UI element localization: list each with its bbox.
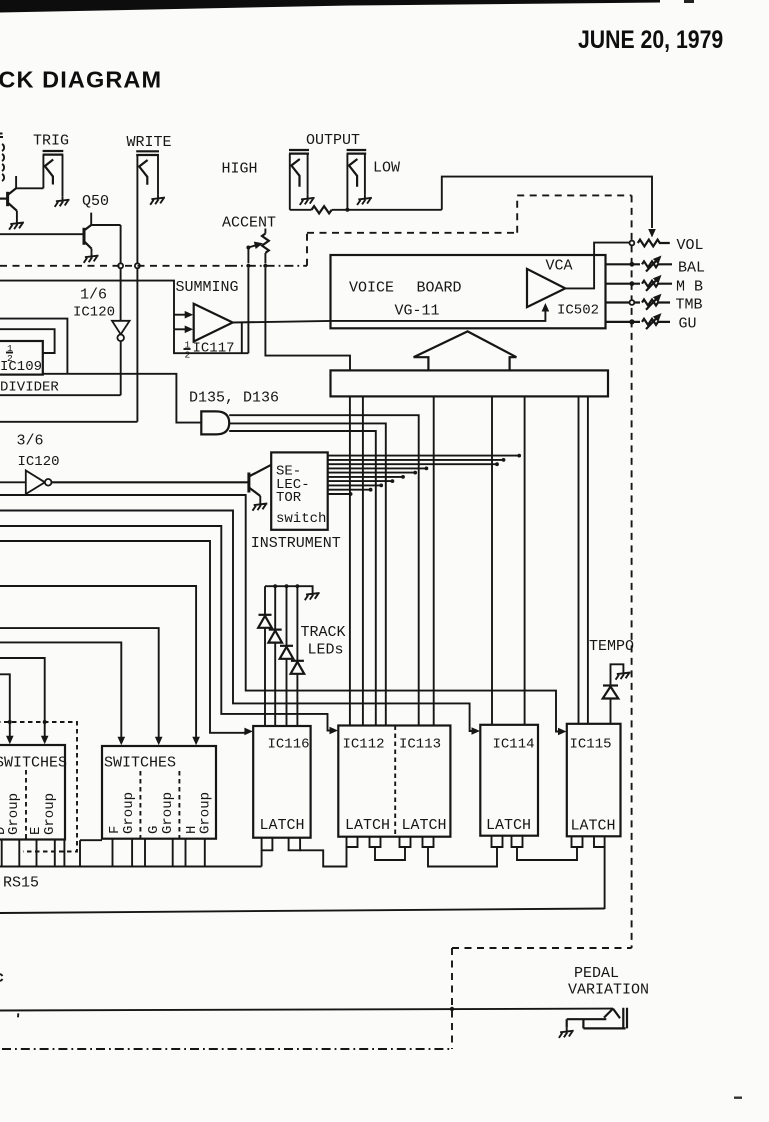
rail under switch boxes xyxy=(0,866,262,868)
label DIVIDER xyxy=(0,380,59,396)
LED tempo xyxy=(603,686,619,699)
wire under left box pin 1 xyxy=(1,840,3,867)
clipped letter fragment bottom left xyxy=(0,974,3,981)
node open circle on WRITE line xyxy=(135,263,140,268)
svg-text:BOARD: BOARD xyxy=(417,280,462,297)
svg-text:OUTPUT: OUTPUT xyxy=(306,132,360,149)
svg-text:Group: Group xyxy=(121,792,137,834)
wire IC109 to AND gate elbow xyxy=(43,374,201,423)
wire long bottom line xyxy=(0,1009,613,1011)
dashed route to voice board xyxy=(307,195,632,232)
AND gate D135/D136 xyxy=(201,411,229,434)
selector fan line 1 xyxy=(328,454,521,458)
tab under IC112 (b) xyxy=(370,837,381,847)
wire under middle box pin last xyxy=(204,839,206,867)
label LEDs xyxy=(308,642,344,659)
op-amp VCA IC502 xyxy=(527,269,565,307)
box IC115 latch xyxy=(567,724,621,837)
svg-text:switch: switch xyxy=(276,511,326,527)
wire group line G to switches F xyxy=(0,642,125,745)
label IC113 xyxy=(399,737,441,753)
jack TRIG xyxy=(43,151,64,197)
box IC116 latch xyxy=(253,726,310,838)
label IC120 (3/6) xyxy=(18,454,60,470)
svg-text:TMB: TMB xyxy=(676,297,703,314)
box SELECTOR switch xyxy=(271,452,328,529)
wire TMB row xyxy=(606,300,641,305)
label TOR xyxy=(276,490,302,506)
label TRACK xyxy=(301,624,346,641)
tab under IC115 (b) xyxy=(594,836,605,847)
label 3/6 xyxy=(17,433,44,450)
label VCA xyxy=(546,258,573,275)
IC109 box xyxy=(0,341,43,375)
label SWITCHES (middle) xyxy=(104,755,176,772)
potentiometer VOL xyxy=(638,240,670,247)
wire bus to IC114 b xyxy=(524,396,526,724)
label WRITE xyxy=(127,134,172,151)
wire IC112 to IC113 chain xyxy=(375,847,405,860)
label HIGH xyxy=(222,161,258,178)
svg-text:VCA: VCA xyxy=(546,258,573,275)
tab under IC114 (a) xyxy=(492,836,503,847)
dashed cell dividers (middle box) xyxy=(140,771,179,839)
label IC116 xyxy=(268,737,310,753)
wire Q50 collector to node xyxy=(91,225,120,263)
stray tick below long line xyxy=(17,1013,19,1017)
selector fan line 2 xyxy=(328,458,506,462)
long rail to left edge xyxy=(0,909,605,914)
wire IC116 to IC112 chain xyxy=(300,847,346,867)
label PEDAL xyxy=(574,965,619,982)
tab under left box (pins 2-3) xyxy=(19,840,36,867)
tab under IC116 (a) xyxy=(262,838,273,851)
label LATCH (IC115) xyxy=(571,818,616,835)
box IC112/IC113 latch xyxy=(338,726,450,837)
long dashed vertical xyxy=(631,195,633,948)
wire IC115 down to long rail xyxy=(604,847,606,909)
ground (Q50 emitter) xyxy=(84,253,99,263)
wire into inverter 3/6 xyxy=(0,481,26,483)
LED D2 xyxy=(268,630,282,643)
dashed riser to accent-route xyxy=(306,233,308,266)
svg-text:SUMMING: SUMMING xyxy=(176,279,239,296)
potentiometer ACCENT xyxy=(246,229,268,264)
label 1/6 xyxy=(80,287,107,304)
arrow summing input 1 xyxy=(174,311,193,319)
label M B xyxy=(676,279,703,296)
label IC109 xyxy=(0,359,42,375)
label E Group (rotated) xyxy=(28,793,58,835)
wire WRITE line continues down xyxy=(136,268,138,421)
ground (selector transistor) xyxy=(252,501,267,511)
node dots on dashed strobe xyxy=(8,720,47,724)
wire track led line 3 xyxy=(286,586,288,725)
wire IC113 to IC114 chain xyxy=(428,847,497,867)
inverter 3/6 IC120 xyxy=(26,471,52,495)
label Q50 xyxy=(82,193,109,210)
wire output bus with resistor xyxy=(290,206,442,213)
wire M B row xyxy=(606,281,641,286)
selector fan line 3 xyxy=(328,462,499,466)
wire BAL row xyxy=(606,262,641,267)
wire tempo led xyxy=(611,664,624,724)
tab under left box (pins 4-5) xyxy=(55,840,65,867)
wire AND output 2 xyxy=(229,423,386,725)
wire inverter to selector transistor base xyxy=(51,481,249,483)
tab under IC115 (a) xyxy=(572,836,583,847)
wire track led line 4 xyxy=(296,586,298,725)
tab under IC116 (b) xyxy=(289,838,301,851)
wire WRITE line turning left xyxy=(0,421,137,423)
wire inverter output down xyxy=(120,341,122,395)
selector fan line 9 xyxy=(328,488,373,492)
label VOICE BOARD xyxy=(349,280,462,297)
wire group line H to switches E xyxy=(0,658,49,744)
svg-text:GU: GU xyxy=(679,316,697,333)
svg-text:TRIG: TRIG xyxy=(33,133,69,150)
LED D4 xyxy=(291,661,305,674)
label GU xyxy=(679,316,697,333)
wire summing output into voice board xyxy=(233,309,546,323)
svg-text:INSTRUMENT: INSTRUMENT xyxy=(251,535,341,552)
svg-text:M B: M B xyxy=(676,279,703,296)
node junction with dashed xyxy=(450,1007,454,1011)
label IC115 xyxy=(570,737,612,753)
wire input line to summing xyxy=(0,281,174,330)
ground (tempo) xyxy=(616,670,631,680)
label LATCH (IC113) xyxy=(402,817,447,834)
label LATCH (IC116) xyxy=(260,817,305,834)
node VOL open circle xyxy=(630,241,635,246)
ground (track leds) xyxy=(305,590,320,600)
svg-text:ACCENT: ACCENT xyxy=(222,215,276,232)
tab under middle box (F) xyxy=(132,839,145,867)
svg-text:IC120: IC120 xyxy=(73,305,115,321)
svg-text:BLOCK DIAGRAM: BLOCK DIAGRAM xyxy=(0,67,162,93)
node LOW jack junction xyxy=(345,208,349,212)
svg-text:TOR: TOR xyxy=(276,490,302,506)
svg-text:WRITE: WRITE xyxy=(127,134,172,151)
svg-text:IC112: IC112 xyxy=(343,737,385,753)
tab under IC113 (a) xyxy=(400,837,411,847)
wire output to VOL pot xyxy=(442,177,652,228)
wire group line D to IC116 xyxy=(0,541,253,735)
ground (LOW jack) xyxy=(357,195,372,205)
IC divider stack box A xyxy=(0,319,67,374)
tab under IC114 (b) xyxy=(512,836,523,847)
label LATCH (IC112) xyxy=(345,817,390,834)
label SWITCHES (left, cut) xyxy=(0,755,67,772)
svg-text:VARIATION: VARIATION xyxy=(568,982,649,999)
wire bus to IC115 b xyxy=(587,396,589,723)
IC divider stack box B xyxy=(0,329,55,353)
selector fan line 8 xyxy=(328,484,383,488)
svg-text:VOL: VOL xyxy=(677,237,704,254)
selector fan line 7 xyxy=(328,479,395,483)
label switch xyxy=(276,511,326,527)
ground (Q49 emitter) xyxy=(9,220,24,230)
tab under IC113 (b) xyxy=(423,837,434,847)
wire IC114 to IC115 chain xyxy=(517,847,577,860)
hollow arrow into voice board xyxy=(414,331,517,370)
ground (TRIG jack) xyxy=(55,197,70,207)
svg-text:LATCH: LATCH xyxy=(571,818,616,835)
box SWITCHES (D/E groups) xyxy=(0,745,65,840)
box SWITCHES (F/G/H groups) xyxy=(102,746,216,839)
page top black bar xyxy=(0,0,660,13)
label INSTRUMENT xyxy=(251,535,341,552)
wire VCA output to VOL xyxy=(565,243,629,289)
LED D3 xyxy=(280,646,294,659)
wire ACCENT pot down to bus bar xyxy=(265,268,350,370)
arrow into VOL wiper xyxy=(648,229,656,238)
node open circle on TRIG line xyxy=(118,263,123,268)
svg-text:2: 2 xyxy=(185,350,191,361)
wire jog between boxes xyxy=(80,840,102,866)
label D135, D136 xyxy=(189,390,279,407)
wire ACCENT wiper down to summing feedback xyxy=(247,268,249,353)
jack WRITE xyxy=(136,151,159,263)
svg-text:Group: Group xyxy=(6,793,22,835)
wire AND output 1 xyxy=(229,415,419,725)
wire group line E to switches H xyxy=(0,586,200,745)
label VOL xyxy=(677,237,704,254)
wire group line C to IC112 xyxy=(0,526,338,734)
transistor Q49 (left, cut) xyxy=(0,176,17,220)
svg-text:Group: Group xyxy=(198,792,214,834)
op-amp IC117 xyxy=(194,304,233,342)
node dots on tie bar xyxy=(273,584,299,588)
wire group line A to IC115 xyxy=(0,495,567,735)
wire group line B to IC114 xyxy=(0,511,480,735)
wire track led line 1 xyxy=(264,586,266,725)
transistor (selector driver) xyxy=(249,465,271,501)
selector fan line 4 xyxy=(328,467,429,471)
label VG-11 xyxy=(395,303,440,320)
label 1/2 IC117 xyxy=(184,340,235,361)
inverter 1/6 IC120 xyxy=(112,321,130,341)
transistor Q50 xyxy=(0,213,92,253)
label VARIATION xyxy=(568,982,649,999)
svg-text:SWITCHES: SWITCHES xyxy=(104,755,176,772)
svg-text:Group: Group xyxy=(42,793,58,835)
node dots on mute line xyxy=(246,264,267,268)
label D Group (rotated) xyxy=(0,793,22,835)
svg-text:BAL: BAL xyxy=(678,260,705,277)
svg-text:VOICE: VOICE xyxy=(349,280,394,297)
wire TRIG line down to inverter xyxy=(120,268,122,320)
wire group line I to switches D xyxy=(0,674,14,744)
box IC114 latch xyxy=(480,725,538,836)
label IC114 xyxy=(493,737,535,753)
wire Q49 collector to TRIG jack xyxy=(16,187,43,189)
wire IC116 tab to rail xyxy=(261,850,263,866)
wire bus to IC115 a xyxy=(578,396,580,723)
svg-text:LATCH: LATCH xyxy=(486,817,531,834)
label G Group (rotated) xyxy=(146,792,176,834)
arrow into VCA control xyxy=(542,303,550,312)
wire AND output 3 xyxy=(229,431,376,726)
page corner mark top right xyxy=(684,0,694,3)
svg-text:Q50: Q50 xyxy=(82,193,109,210)
wire bus to IC112 a xyxy=(349,396,351,725)
label SUMMING xyxy=(176,279,239,296)
svg-text:TRACK: TRACK xyxy=(301,624,346,641)
label OUTPUT xyxy=(306,132,360,149)
svg-text:IC115: IC115 xyxy=(570,737,612,753)
potentiometer GU xyxy=(642,310,670,329)
label 1/2 (IC109) xyxy=(6,343,13,364)
arrow summing input 2 xyxy=(174,326,193,334)
voice board box xyxy=(331,255,606,328)
label IC502 xyxy=(557,303,599,319)
svg-text:IC502: IC502 xyxy=(557,303,599,319)
selector fan line 6 xyxy=(328,475,405,479)
svg-text:LEDs: LEDs xyxy=(308,642,344,659)
label LATCH (IC114) xyxy=(486,817,531,834)
tab under IC112 (a) xyxy=(347,837,358,847)
dashed enclosure around left switch group xyxy=(0,722,77,852)
dashed mute line xyxy=(0,265,307,267)
svg-text:SWITCHES: SWITCHES xyxy=(0,755,67,772)
label RS15 xyxy=(3,875,39,892)
label BAL xyxy=(678,260,705,277)
label SE- xyxy=(276,464,301,480)
ground (HIGH jack) xyxy=(300,195,315,205)
wire summing feedback loop xyxy=(174,323,248,354)
page speck bottom right xyxy=(734,1097,742,1099)
wire track led line 2 xyxy=(274,586,276,725)
dashed divider IC112/IC113 xyxy=(394,726,396,837)
svg-text:IC114: IC114 xyxy=(493,737,535,753)
jack OUTPUT LOW xyxy=(347,150,367,210)
svg-text:Group: Group xyxy=(160,792,176,834)
svg-text:IC109: IC109 xyxy=(0,359,42,375)
track led tie bar xyxy=(265,586,313,590)
label TRIG xyxy=(33,133,69,150)
wire under middle box pin 1 xyxy=(112,839,114,867)
dashed pedal route xyxy=(2,948,632,1049)
svg-text:IC120: IC120 xyxy=(18,454,60,470)
tab under middle box (G) xyxy=(173,839,186,867)
clipped glyph fragments at left edge xyxy=(0,134,4,182)
svg-text:LATCH: LATCH xyxy=(345,817,390,834)
ground (WRITE jack) xyxy=(150,195,165,205)
svg-text:IC113: IC113 xyxy=(399,737,441,753)
wire group line F to switches G xyxy=(0,628,163,745)
svg-text:RS15: RS15 xyxy=(3,875,39,892)
selector fan line 5 xyxy=(328,471,417,475)
label IC112 xyxy=(343,737,385,753)
label H Group (rotated) xyxy=(184,792,214,834)
wire bus to IC112 b xyxy=(362,396,364,725)
label TEMPO xyxy=(589,638,634,655)
wire bus to IC113 xyxy=(433,396,435,725)
label LOW xyxy=(373,160,400,177)
LED D1 xyxy=(258,615,272,628)
date JUNE 20, 1979 xyxy=(578,25,723,53)
bus bar xyxy=(331,370,609,396)
svg-text:DIVIDER: DIVIDER xyxy=(0,380,59,396)
jack OUTPUT HIGH xyxy=(289,150,309,210)
label LEC- xyxy=(276,477,310,493)
dashed cell divider (left box) xyxy=(25,770,27,840)
svg-text:LATCH: LATCH xyxy=(260,817,305,834)
svg-text:TEMPO: TEMPO xyxy=(589,638,634,655)
label IC120 xyxy=(73,305,115,321)
svg-text:HIGH: HIGH xyxy=(222,161,258,178)
potentiometer BAL xyxy=(642,253,672,272)
svg-text:LOW: LOW xyxy=(373,160,400,177)
pedal switch symbol xyxy=(567,1008,627,1029)
svg-text:3/6: 3/6 xyxy=(17,433,44,450)
svg-text:JUNE 20, 1979: JUNE 20, 1979 xyxy=(578,25,723,53)
svg-text:IC116: IC116 xyxy=(268,737,310,753)
potentiometer M B xyxy=(642,272,672,291)
label F Group (rotated) xyxy=(107,792,137,834)
svg-text:1/6: 1/6 xyxy=(80,287,107,304)
wire GU row xyxy=(606,319,641,324)
svg-text:LATCH: LATCH xyxy=(402,817,447,834)
svg-text:D135, D136: D135, D136 xyxy=(189,390,279,407)
selector fan line 10 xyxy=(328,492,353,496)
svg-text:VG-11: VG-11 xyxy=(395,303,440,320)
wire bus to IC114 a xyxy=(491,396,493,724)
wire divider out xyxy=(0,394,121,396)
svg-text:PEDAL: PEDAL xyxy=(574,965,619,982)
label ACCENT xyxy=(222,215,276,232)
potentiometer TMB xyxy=(642,291,670,310)
label TMB xyxy=(676,297,703,314)
ground (pedal) xyxy=(559,1028,574,1038)
